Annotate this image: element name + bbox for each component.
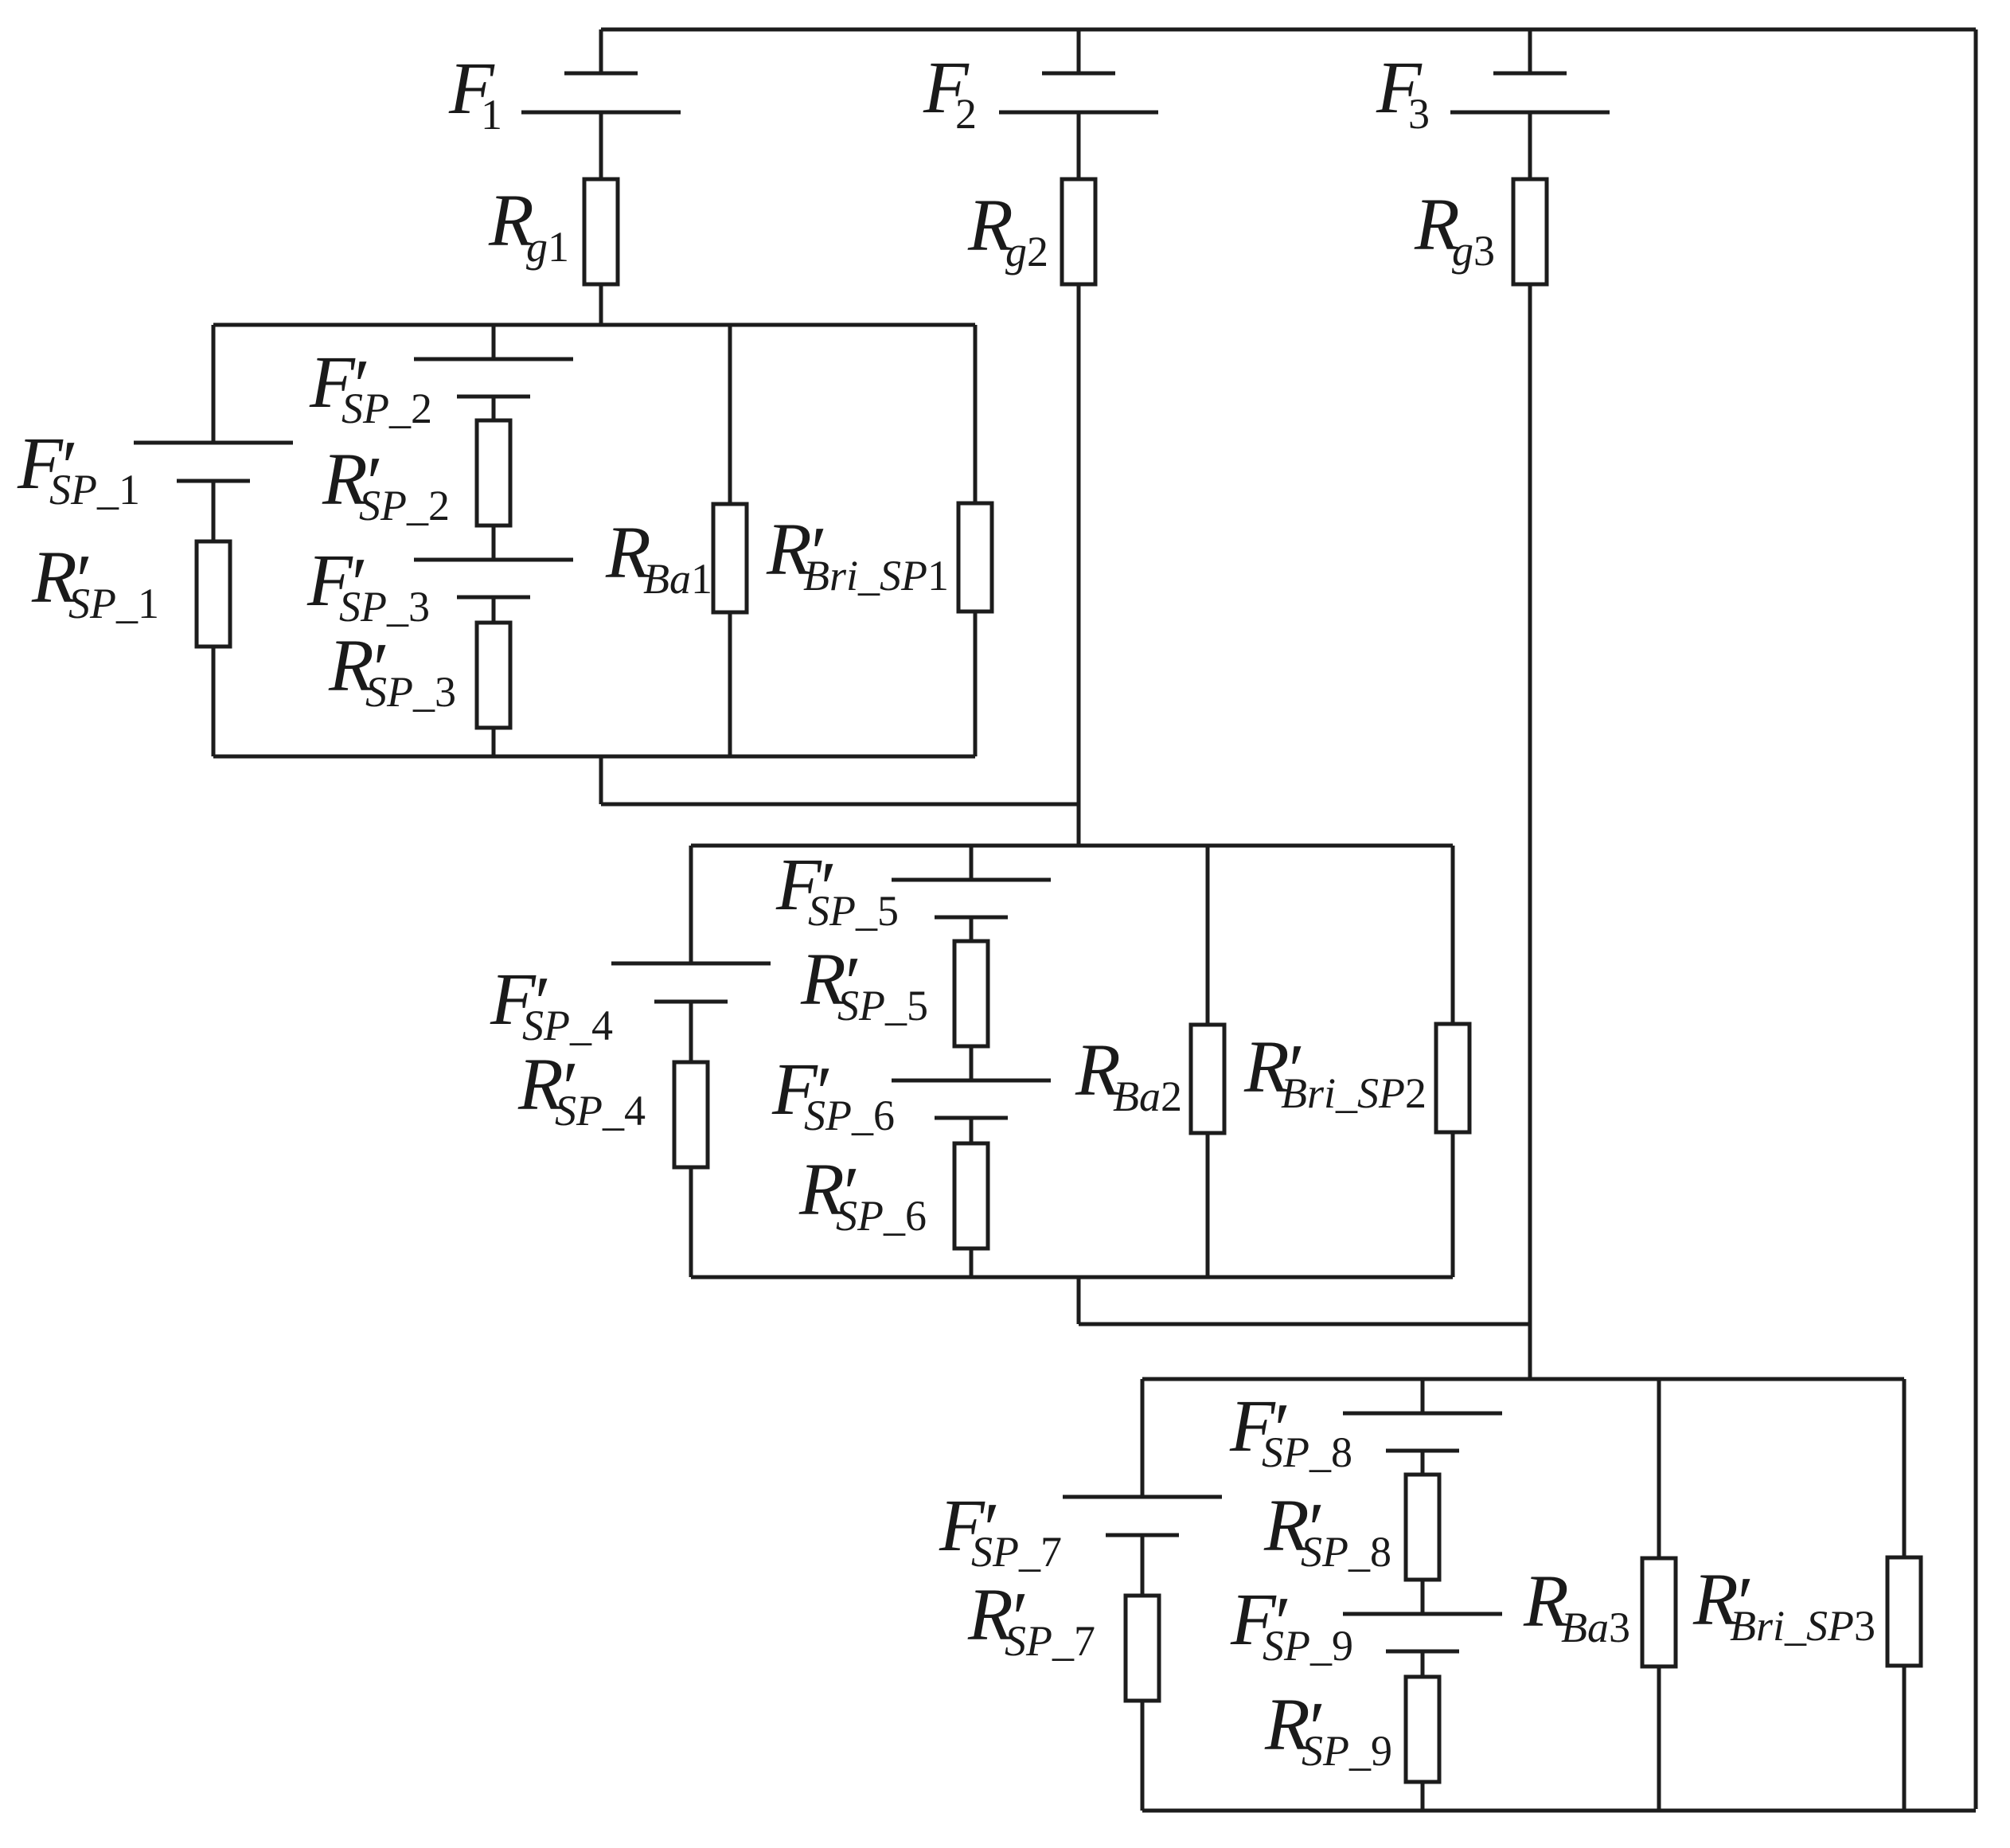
label R'SP_8 — [1263, 1485, 1391, 1576]
svg-text:SP_1: SP_1 — [68, 580, 159, 627]
label F'SP_5 — [775, 844, 899, 935]
label Rg2 — [967, 185, 1048, 275]
svg-text:SP_7: SP_7 — [1005, 1617, 1095, 1665]
wire F'SP_2 to R'SP_2 — [492, 397, 496, 420]
svg-text:Bri_SP3: Bri_SP3 — [1730, 1602, 1875, 1650]
svg-text:SP_3: SP_3 — [339, 583, 430, 631]
wire block2 top rail — [691, 844, 1453, 848]
wire R'SP_3 bottom lead — [492, 728, 496, 756]
svg-text:SP_9: SP_9 — [1263, 1622, 1353, 1670]
battery F1 short plate — [564, 72, 638, 76]
svg-text:1: 1 — [481, 91, 502, 139]
svg-text:g2: g2 — [1005, 228, 1048, 275]
label Rg3 — [1414, 184, 1495, 275]
svg-text:g1: g1 — [526, 223, 569, 271]
wire block1 left edge upper — [212, 325, 216, 443]
wire right return — [1974, 29, 1978, 1809]
battery F'SP_6 long plate — [892, 1079, 1051, 1083]
battery F2 short plate — [1042, 72, 1115, 76]
label F3 — [1376, 47, 1430, 138]
svg-text:SP_3: SP_3 — [365, 668, 456, 716]
battery F'SP_4 long plate — [611, 962, 771, 966]
svg-text:Ba3: Ba3 — [1561, 1604, 1630, 1651]
wire F3 to Rg3 — [1528, 112, 1532, 179]
wire F'SP_5 top lead — [970, 846, 974, 880]
wire R'Bri_SP3 bottom lead — [1903, 1666, 1907, 1811]
wire F'SP_2 top lead — [492, 325, 496, 359]
svg-text:SP_6: SP_6 — [804, 1092, 895, 1139]
wire R_Ba3 top lead — [1657, 1379, 1661, 1558]
wire R'Bri_SP3 top lead — [1903, 1379, 1907, 1557]
battery F'SP_5 long plate — [892, 878, 1051, 882]
wire block1 top rail — [213, 323, 975, 327]
wire block2 to F3 branch — [1079, 1323, 1530, 1326]
resistor R'SP_2 — [477, 420, 510, 525]
battery F'SP_7 short plate — [1106, 1533, 1179, 1537]
wire F2 top lead — [1077, 29, 1081, 73]
wire F'SP_6 to R'SP_6 — [970, 1118, 974, 1143]
battery F'SP_8 short plate — [1386, 1449, 1459, 1453]
wire R'SP_6 bottom lead — [970, 1248, 974, 1277]
label R_Ba2 — [1075, 1029, 1182, 1120]
battery F'SP_3 short plate — [457, 596, 530, 600]
battery F'SP_2 long plate — [414, 357, 573, 361]
battery F'SP_1 long plate — [134, 441, 293, 445]
battery F3 short plate — [1493, 72, 1567, 76]
battery F'SP_1 short plate — [177, 479, 250, 483]
label F1 — [448, 48, 502, 139]
label F'SP_3 — [306, 540, 430, 631]
svg-text:SP_4: SP_4 — [555, 1087, 646, 1135]
wire R_Ba2 bottom lead — [1206, 1133, 1210, 1277]
resistor R'SP_8 — [1406, 1475, 1439, 1580]
resistor R'SP_3 — [477, 623, 510, 728]
wire F2 to Rg2 — [1077, 112, 1081, 179]
svg-text:SP_8: SP_8 — [1262, 1428, 1352, 1476]
wire F1 top lead — [599, 29, 603, 73]
wire R_Ba2 top lead — [1206, 846, 1210, 1025]
svg-text:SP_5: SP_5 — [837, 982, 928, 1029]
resistor Rg3 — [1513, 179, 1547, 284]
svg-text:SP_6: SP_6 — [836, 1192, 927, 1240]
wire R'SP_9 bottom lead — [1421, 1782, 1425, 1811]
svg-text:SP_2: SP_2 — [359, 482, 450, 529]
wire F'SP_9 to R'SP_9 — [1421, 1651, 1425, 1677]
battery F'SP_3 long plate — [414, 558, 573, 562]
wire R_Ba3 bottom lead — [1657, 1666, 1661, 1811]
label F'SP_9 — [1230, 1579, 1353, 1670]
svg-text:Ba2: Ba2 — [1113, 1072, 1182, 1120]
svg-text:Ba1: Ba1 — [643, 555, 712, 603]
wire F'SP_1 to R'SP_1 — [212, 481, 216, 541]
wire block3 top rail — [1142, 1377, 1904, 1381]
wire block2 bottom stub — [1077, 1277, 1081, 1324]
resistor Rg2 — [1062, 179, 1095, 284]
wire block3 left edge upper — [1141, 1379, 1145, 1497]
label F'SP_8 — [1229, 1385, 1352, 1476]
wire F'SP_4 to R'SP_4 — [689, 1002, 693, 1062]
wire R'SP_8 to F'SP_9 — [1421, 1580, 1425, 1614]
resistor R'Bri_SP3 — [1887, 1557, 1921, 1666]
resistor R'SP_1 — [197, 541, 230, 647]
label R'SP_7 — [967, 1574, 1095, 1665]
wire F'SP_3 to R'SP_3 — [492, 597, 496, 623]
wire R'SP_2 to F'SP_3 — [492, 525, 496, 560]
svg-text:SP_1: SP_1 — [49, 466, 140, 514]
label R_Ba1 — [605, 512, 712, 603]
resistor Rg1 — [584, 179, 618, 284]
wire Rg3 to block — [1528, 284, 1532, 1379]
wire F3 top lead — [1528, 29, 1532, 73]
battery F3 long plate — [1450, 111, 1610, 115]
svg-text:SP_9: SP_9 — [1302, 1727, 1392, 1775]
wire block1 left edge lower — [212, 647, 216, 756]
label R'Bri_SP1 — [766, 509, 949, 600]
battery F'SP_5 short plate — [935, 916, 1008, 920]
svg-text:SP_8: SP_8 — [1301, 1528, 1391, 1576]
label F'SP_2 — [309, 342, 432, 432]
svg-text:2: 2 — [955, 90, 977, 138]
wire block3 left edge lower — [1141, 1701, 1145, 1811]
resistor R_Ba1 — [713, 504, 747, 612]
svg-text:3: 3 — [1408, 90, 1430, 138]
label R'SP_1 — [31, 537, 159, 627]
resistor R'SP_9 — [1406, 1677, 1439, 1782]
resistor R'SP_4 — [674, 1062, 708, 1167]
battery F1 long plate — [521, 111, 681, 115]
wire R_Ba1 top lead — [728, 325, 732, 504]
battery F'SP_6 short plate — [935, 1116, 1008, 1120]
svg-text:g3: g3 — [1452, 227, 1495, 275]
wire block2 left edge upper — [689, 846, 693, 963]
battery F'SP_9 short plate — [1386, 1650, 1459, 1654]
label F'SP_6 — [771, 1049, 895, 1139]
wire block2 bottom rail — [691, 1276, 1453, 1280]
wire R'Bri_SP1 bottom lead — [974, 611, 978, 756]
wire Rg2 to block — [1077, 284, 1081, 846]
wire F'SP_5 to R'SP_5 — [970, 917, 974, 941]
wire block1 to F2 branch — [601, 803, 1079, 807]
label R'SP_2 — [322, 439, 450, 529]
label R'SP_4 — [517, 1044, 646, 1135]
wire top rail — [601, 28, 1976, 32]
label F2 — [923, 47, 977, 138]
wire F'SP_8 top lead — [1421, 1379, 1425, 1413]
wire R'Bri_SP2 bottom lead — [1451, 1132, 1455, 1277]
label F'SP_1 — [17, 423, 140, 514]
svg-text:Bri_SP1: Bri_SP1 — [803, 552, 949, 600]
battery F'SP_8 long plate — [1343, 1412, 1502, 1416]
label R_Ba3 — [1523, 1561, 1630, 1651]
resistor R_Ba3 — [1642, 1558, 1676, 1666]
battery F2 long plate — [999, 111, 1158, 115]
battery F'SP_4 short plate — [654, 1000, 728, 1004]
wire R_Ba1 bottom lead — [728, 612, 732, 756]
label R'SP_3 — [328, 625, 456, 716]
label R'SP_5 — [800, 939, 928, 1029]
resistor R_Ba2 — [1191, 1025, 1224, 1133]
battery F'SP_7 long plate — [1063, 1495, 1222, 1499]
svg-text:SP_7: SP_7 — [971, 1528, 1062, 1576]
label Rg1 — [488, 180, 569, 271]
wire Rg1 to block — [599, 284, 603, 325]
battery F'SP_9 long plate — [1343, 1612, 1502, 1616]
wire R'Bri_SP1 top lead — [974, 325, 978, 503]
label R'SP_9 — [1264, 1684, 1392, 1775]
wire block1 bottom rail — [213, 755, 975, 759]
wire R'Bri_SP2 top lead — [1451, 846, 1455, 1024]
resistor R'SP_7 — [1126, 1596, 1159, 1701]
wire block2 left edge lower — [689, 1167, 693, 1277]
label R'Bri_SP3 — [1692, 1559, 1875, 1650]
wire F'SP_8 to R'SP_8 — [1421, 1451, 1425, 1475]
resistor R'SP_5 — [954, 941, 988, 1046]
svg-text:SP_4: SP_4 — [522, 1002, 613, 1049]
label R'Bri_SP2 — [1243, 1026, 1427, 1117]
svg-text:SP_5: SP_5 — [808, 887, 899, 935]
wire block1 bottom stub — [599, 756, 603, 804]
wire block3 bottom rail — [1142, 1809, 1976, 1813]
svg-text:Bri_SP2: Bri_SP2 — [1281, 1069, 1427, 1117]
label F'SP_4 — [490, 959, 613, 1049]
resistor R'Bri_SP1 — [958, 503, 992, 611]
wire F'SP_7 to R'SP_7 — [1141, 1535, 1145, 1596]
label F'SP_7 — [939, 1485, 1062, 1576]
battery F'SP_2 short plate — [457, 395, 530, 399]
resistor R'SP_6 — [954, 1143, 988, 1248]
resistor R'Bri_SP2 — [1436, 1024, 1469, 1132]
wire R'SP_5 to F'SP_6 — [970, 1046, 974, 1080]
svg-text:SP_2: SP_2 — [342, 385, 432, 432]
wire F1 to Rg1 — [599, 112, 603, 179]
label R'SP_6 — [798, 1149, 927, 1240]
